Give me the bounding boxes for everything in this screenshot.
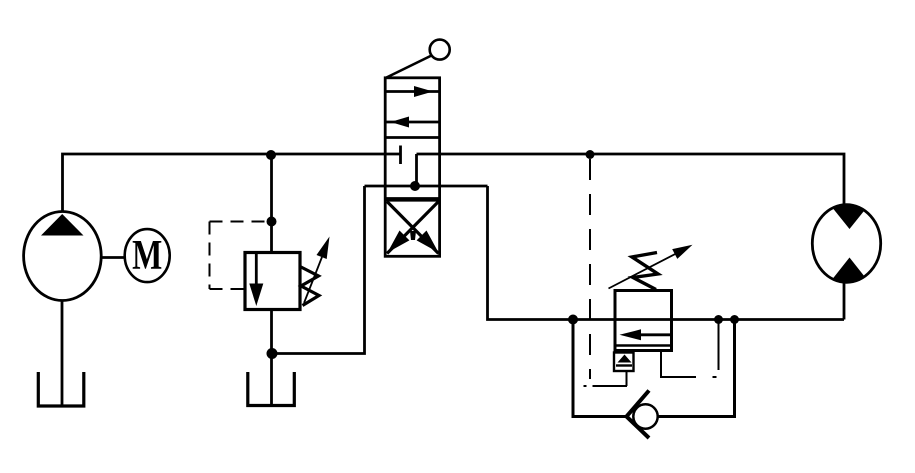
svg-text:M: M [132, 233, 162, 279]
